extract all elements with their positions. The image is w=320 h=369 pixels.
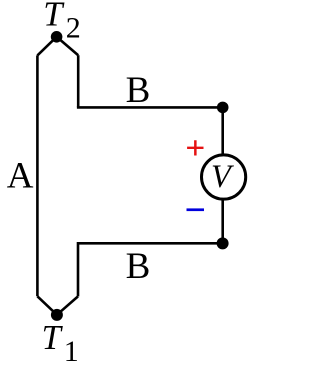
- wire A vertical segment: [36, 55, 39, 296]
- svg-text:B: B: [126, 70, 151, 111]
- wire: junction T2 to wire A upper bend: [37, 37, 56, 56]
- svg-text:V: V: [211, 159, 234, 195]
- wire: lower B vertical segment: [77, 242, 80, 296]
- svg-text:2: 2: [66, 11, 81, 44]
- voltmeter V1 body: [202, 155, 246, 199]
- wire: + node to voltmeter top terminal: [221, 107, 224, 156]
- node: voltmeter - terminal junction dot: [217, 237, 229, 249]
- svg-text:1: 1: [64, 335, 79, 368]
- svg-text:T: T: [43, 0, 65, 33]
- wire: wire A lower bend to junction T1: [37, 296, 57, 315]
- junction T1 (reference junction dot): [51, 309, 63, 321]
- wire: lower B bend to junction T1: [57, 296, 78, 314]
- polarity minus sign (blue): [187, 208, 205, 211]
- wire: junction T2 to wire B upper bend: [57, 37, 79, 55]
- wire: upper B horizontal segment to + node: [77, 106, 223, 109]
- node: voltmeter + terminal junction dot: [217, 102, 229, 114]
- svg-text:B: B: [126, 246, 151, 287]
- svg-text:T: T: [42, 319, 64, 357]
- wire: upper B vertical segment: [77, 55, 80, 107]
- polarity plus sign (red): [187, 140, 203, 155]
- junction T2 (measuring junction dot): [51, 31, 63, 43]
- wire: voltmeter bottom terminal to - node: [221, 199, 224, 243]
- svg-text:A: A: [7, 155, 34, 196]
- wire: lower B horizontal segment from - node: [78, 242, 223, 245]
